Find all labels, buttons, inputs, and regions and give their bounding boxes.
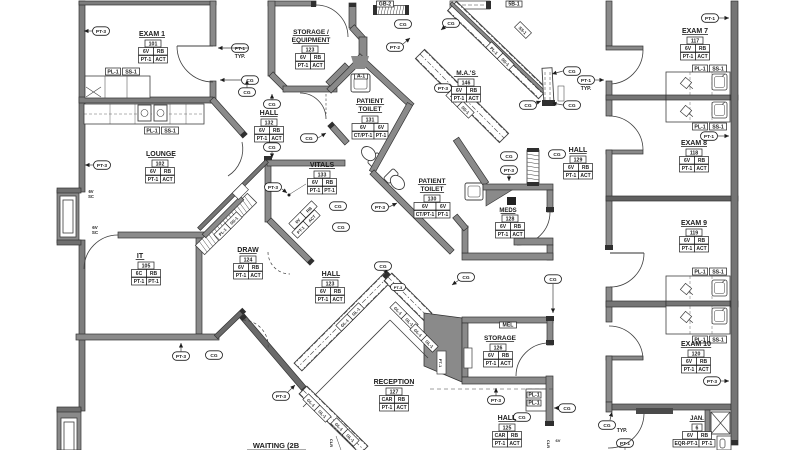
svg-text:ACT: ACT [155,57,165,63]
svg-text:CG: CG [399,22,406,28]
svg-text:PT-1: PT-1 [702,441,713,447]
svg-text:CG: CG [568,69,575,75]
svg-text:PT-1: PT-1 [454,96,465,102]
svg-text:128: 128 [506,216,515,222]
svg-text:PT-1: PT-1 [438,359,443,368]
svg-text:M.A.'S: M.A.'S [456,70,476,77]
svg-text:PT-1: PT-1 [141,57,152,63]
svg-text:PT-3: PT-3 [707,379,717,385]
svg-text:131: 131 [366,117,375,123]
svg-text:TOILET: TOILET [359,106,382,113]
svg-text:CLR: CLR [546,440,551,448]
svg-text:CG: CG [524,103,531,109]
svg-text:PT-3: PT-3 [276,394,286,400]
svg-text:PT-3: PT-3 [97,163,107,169]
svg-text:ACT: ACT [312,63,322,69]
svg-text:123: 123 [326,281,335,287]
svg-text:PL-1: PL-1 [694,269,705,275]
svg-text:PT-3: PT-3 [176,354,186,360]
svg-text:PL-1: PL-1 [694,124,705,130]
svg-text:6V: 6V [500,224,507,230]
svg-text:ACT: ACT [396,405,406,411]
svg-text:TYP.: TYP. [581,86,592,92]
svg-text:RB: RB [326,180,334,186]
svg-text:PT-1: PT-1 [148,177,159,183]
svg-text:ACT: ACT [162,177,172,183]
svg-text:TYP.: TYP. [235,54,246,60]
svg-text:102: 102 [156,161,165,167]
svg-text:PL-1: PL-1 [107,69,118,75]
svg-text:TYP.: TYP. [617,428,628,434]
svg-text:ACT: ACT [332,297,342,303]
svg-text:PT-2: PT-2 [390,45,400,51]
svg-text:ACT: ACT [512,232,522,238]
svg-text:118: 118 [690,150,698,156]
svg-text:EXAM 9: EXAM 9 [681,220,707,227]
svg-text:ACT: ACT [509,441,519,447]
svg-text:SC: SC [88,194,94,199]
svg-text:6V: 6V [143,49,150,55]
svg-text:PT-3: PT-3 [438,86,448,92]
svg-text:CAR: CAR [495,433,506,439]
svg-text:STORAGE: STORAGE [484,335,517,342]
svg-text:PT-3: PT-3 [268,185,278,191]
svg-text:RECEPTION: RECEPTION [374,379,415,386]
svg-text:ACT: ACT [696,246,706,252]
svg-text:101: 101 [149,41,158,47]
svg-text:6V: 6V [238,265,245,271]
svg-text:EXAM 7: EXAM 7 [682,28,708,35]
svg-text:PL-1: PL-1 [528,400,539,406]
svg-text:CG: CG [305,136,312,142]
svg-text:126: 126 [494,345,503,351]
svg-text:RB: RB [157,49,165,55]
svg-text:PT-1: PT-1 [705,16,715,22]
svg-text:SS-1: SS-1 [712,337,724,343]
svg-text:PT-1: PT-1 [236,273,247,279]
svg-text:RB: RB [700,359,708,365]
svg-text:ACT: ACT [580,173,590,179]
svg-text:WAITING (2B: WAITING (2B [253,441,300,450]
svg-text:CG: CG [505,154,512,160]
svg-text:RB: RB [314,55,322,61]
svg-text:6: 6 [696,425,699,431]
svg-text:HALL: HALL [569,147,588,154]
svg-text:VITALS: VITALS [310,162,335,169]
svg-text:6V: 6V [687,433,694,439]
svg-text:RB: RB [150,271,158,277]
svg-text:TOILET: TOILET [421,186,444,193]
svg-text:CT/PT-1: CT/PT-1 [354,133,373,139]
svg-text:HALL: HALL [322,271,341,278]
svg-text:PT-3: PT-3 [375,205,385,211]
svg-text:PT-1: PT-1 [682,246,693,252]
svg-text:PT-1: PT-1 [498,232,509,238]
svg-text:HALL: HALL [498,415,517,422]
svg-text:CG: CG [563,406,570,412]
svg-text:PT-1: PT-1 [438,212,449,218]
svg-text:CG: CG [210,353,217,359]
svg-text:EXAM 10: EXAM 10 [681,341,711,348]
svg-text:LOUNGE: LOUNGE [146,151,176,158]
svg-text:PT-1: PT-1 [148,279,159,285]
svg-text:SS-1: SS-1 [125,69,137,75]
svg-text:127: 127 [390,389,399,395]
svg-text:RB: RB [502,353,510,359]
svg-text:ACT: ACT [500,361,510,367]
svg-text:146: 146 [462,80,471,86]
svg-text:RB: RB [698,238,706,244]
svg-text:CT/PT-1: CT/PT-1 [416,212,435,218]
svg-text:CG: CG [268,145,275,151]
svg-text:CG: CG [603,423,610,429]
svg-text:6V: 6V [684,158,691,164]
svg-text:PL-1: PL-1 [694,66,705,72]
svg-text:SS-1: SS-1 [164,128,176,134]
svg-text:CG: CG [553,152,560,158]
svg-text:EQR-PT-1: EQR-PT-1 [674,441,697,447]
svg-text:6V: 6V [556,438,561,443]
svg-text:ACT: ACT [250,273,260,279]
svg-text:RB: RB [470,88,478,94]
svg-text:RB: RB [511,433,519,439]
svg-text:RB: RB [273,128,281,134]
svg-text:PT-1: PT-1 [704,134,714,140]
svg-text:6V: 6V [300,55,307,61]
svg-text:6V: 6V [456,88,463,94]
svg-text:6V: 6V [684,238,691,244]
svg-text:CG: CG [568,103,575,109]
svg-text:6C: 6C [136,271,143,277]
svg-text:PT-3: PT-3 [96,29,106,35]
svg-text:CLR: CLR [329,439,334,447]
svg-text:PT-1: PT-1 [683,54,694,60]
svg-text:EXAM 1: EXAM 1 [139,31,165,38]
svg-text:PT-1: PT-1 [486,361,497,367]
svg-text:6V: 6V [685,46,692,52]
svg-text:RB: RB [701,433,709,439]
svg-text:CG: CG [447,21,454,27]
svg-text:RB: RB [582,165,590,171]
svg-text:SS-1: SS-1 [712,66,724,72]
svg-text:123: 123 [306,47,315,53]
svg-text:GB-2: GB-2 [379,1,392,7]
svg-text:CG: CG [334,204,341,210]
svg-text:CG: CG [518,415,525,421]
svg-text:EQUIPMENT: EQUIPMENT [292,37,331,44]
svg-text:132: 132 [265,120,274,126]
svg-text:IT: IT [137,253,144,260]
svg-text:CG: CG [549,277,556,283]
svg-text:RB: RB [398,397,406,403]
svg-text:124: 124 [244,257,253,263]
svg-text:CAR: CAR [382,397,393,403]
svg-text:HALL: HALL [260,110,279,117]
svg-text:6V: 6V [150,169,157,175]
svg-text:ACT: ACT [698,367,708,373]
svg-text:PT-3: PT-3 [394,285,403,290]
svg-text:STORAGE /: STORAGE / [293,29,329,36]
svg-text:PATIENT: PATIENT [419,178,446,185]
svg-text:RB: RB [334,289,342,295]
svg-text:ACT: ACT [696,166,706,172]
svg-text:CG: CG [337,225,344,231]
svg-text:6V: 6V [686,359,693,365]
svg-text:105: 105 [142,263,151,269]
svg-text:6V: 6V [378,125,385,131]
svg-text:PT-1: PT-1 [581,78,591,84]
svg-text:SS-1: SS-1 [712,124,724,130]
svg-text:PATIENT: PATIENT [357,98,384,105]
svg-text:SS-1: SS-1 [712,269,724,275]
svg-text:A-1: A-1 [357,73,365,79]
svg-text:PT-1: PT-1 [235,46,245,52]
svg-text:RB: RB [514,224,522,230]
svg-text:PT-1: PT-1 [324,188,335,194]
svg-text:6V: 6V [488,353,495,359]
svg-text:6V: 6V [440,204,447,210]
svg-text:CG: CG [462,275,469,281]
svg-text:6V: 6V [259,128,266,134]
svg-text:MEL: MEL [503,322,515,328]
svg-text:RB: RB [164,169,172,175]
svg-text:DRAW: DRAW [237,247,259,254]
svg-text:119: 119 [690,230,698,236]
svg-text:PT-1: PT-1 [382,405,393,411]
svg-text:PL-1: PL-1 [528,392,539,398]
svg-text:125: 125 [503,425,512,431]
svg-text:SC: SC [92,230,99,235]
svg-text:PT-1: PT-1 [684,367,695,373]
svg-text:CG: CG [243,90,250,96]
svg-text:ACT: ACT [697,54,707,60]
svg-text:5B-1: 5B-1 [508,1,519,7]
svg-text:PT-1: PT-1 [298,63,309,69]
svg-text:6V: 6V [360,125,367,131]
svg-text:EXAM 8: EXAM 8 [681,140,707,147]
svg-text:PT-3: PT-3 [491,398,501,404]
svg-text:6V: 6V [320,289,327,295]
svg-text:120: 120 [692,351,701,357]
svg-text:PT-1: PT-1 [495,441,506,447]
svg-text:PT-1: PT-1 [134,279,145,285]
svg-text:PT-1: PT-1 [566,173,577,179]
svg-text:CG: CG [268,102,275,108]
svg-text:PT-3: PT-3 [504,168,514,174]
svg-text:ACT: ACT [271,136,281,142]
svg-text:PT-1: PT-1 [318,297,329,303]
svg-text:CG: CG [379,264,386,270]
svg-text:133: 133 [318,172,327,178]
svg-text:6V: 6V [312,180,319,186]
svg-text:PL-1: PL-1 [146,128,157,134]
svg-text:129: 129 [574,157,583,163]
svg-text:PT-1: PT-1 [376,133,387,139]
svg-text:PT-1: PT-1 [257,136,268,142]
svg-text:117: 117 [691,38,699,44]
svg-text:PT-1: PT-1 [682,166,693,172]
svg-text:6V: 6V [422,204,429,210]
svg-text:130: 130 [428,196,437,202]
svg-text:6V: 6V [568,165,575,171]
svg-text:RB: RB [252,265,260,271]
svg-text:ACT: ACT [468,96,478,102]
svg-text:PT-1: PT-1 [310,188,321,194]
svg-text:RB: RB [698,158,706,164]
svg-text:RB: RB [699,46,707,52]
